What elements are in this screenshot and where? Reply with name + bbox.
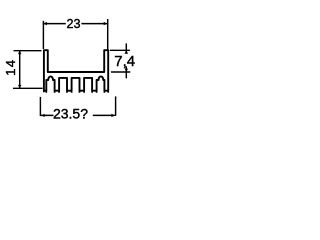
dim 23: dimension line — [43, 23, 107, 25]
dim 23.5: extension line right — [115, 96, 117, 116]
dim 14: dimension line — [19, 51, 21, 89]
dim 7.4: extension line bottom — [111, 71, 130, 73]
dim 23.5: dimension line — [41, 114, 115, 116]
dim 23: extension line right — [107, 19, 109, 50]
svg-text:23.5?: 23.5? — [53, 105, 88, 121]
dim 7.4: extension line top — [110, 49, 130, 51]
dim 23.5: arrow left — [41, 114, 45, 117]
dim 7.4: dimension line segments — [125, 43, 127, 78]
dim 7.4: arrow up — [125, 50, 128, 54]
svg-text:7,4: 7,4 — [114, 53, 135, 70]
svg-text:23: 23 — [66, 17, 80, 31]
heatsink profile outline — [44, 50, 108, 90]
svg-text:14: 14 — [3, 59, 18, 76]
fin bottom whisker ticks — [44, 91, 108, 93]
dim 23: arrow left — [43, 22, 47, 25]
dim 23: arrow right — [104, 22, 108, 25]
dim 23.5: extension line left — [39, 97, 41, 116]
dim 14: extension line top — [14, 50, 42, 52]
dim 23: extension line left — [42, 21, 44, 49]
dim 14: arrow up — [18, 50, 21, 54]
dim 14: arrow down — [18, 85, 21, 89]
dim 7.4: arrow down — [125, 69, 128, 73]
dim 14: extension line bottom — [13, 87, 43, 89]
dim 23.5: arrow right — [111, 114, 115, 117]
